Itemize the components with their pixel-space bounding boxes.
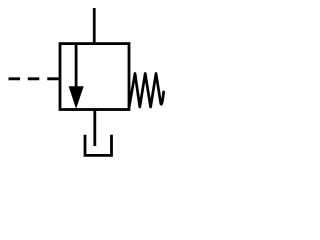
drain line to tank (93, 109, 96, 146)
top port P line (93, 8, 96, 44)
pilot control dashed line (9, 77, 59, 80)
spring (129, 74, 164, 108)
internal flow arrowhead (69, 86, 84, 109)
internal flow path line (75, 44, 78, 90)
valve body (square) (60, 44, 129, 110)
tank (reservoir) (85, 135, 112, 156)
